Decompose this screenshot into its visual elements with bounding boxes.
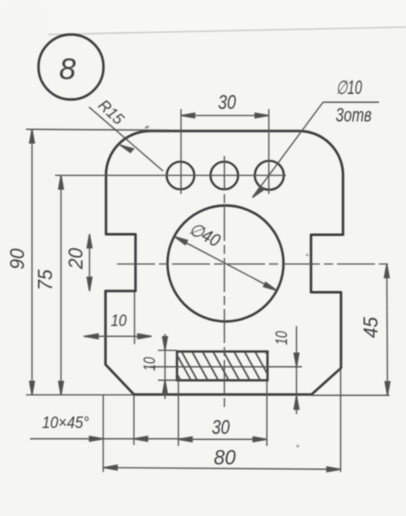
svg-text:3отв: 3отв	[336, 105, 372, 126]
dim 45	[384, 264, 390, 395]
svg-text:45: 45	[361, 316, 383, 338]
dim d40 diameter line	[174, 237, 277, 291]
part outline	[106, 131, 344, 395]
dim 10 notch	[84, 334, 152, 339]
ext for notch 10 dim	[134, 292, 136, 344]
ext left bottom (10x45 + 80)	[102, 395, 104, 472]
slot top/bottom ext left (10 dim)	[158, 349, 177, 351]
top edge extension left (90 dim)	[26, 128, 170, 131]
svg-text:10: 10	[272, 331, 291, 345]
main vertical centerline	[223, 156, 225, 409]
thin lines: extensions and centerlines	[26, 109, 390, 472]
dim 30 bottom	[178, 437, 266, 442]
svg-text:80: 80	[214, 447, 236, 470]
slot hatched	[177, 352, 268, 381]
hole 2	[211, 162, 239, 190]
svg-text:10×45°: 10×45°	[42, 413, 89, 432]
leader R15	[89, 107, 163, 171]
svg-text:8: 8	[59, 53, 76, 86]
big circle d40	[168, 206, 284, 322]
dim 80	[104, 465, 341, 472]
dim 10x45	[30, 436, 183, 441]
right ext (80) through chamfer	[340, 368, 342, 472]
svg-text:∅10: ∅10	[336, 78, 362, 99]
ext right for 10x45	[133, 395, 135, 445]
scan specks	[145, 125, 150, 129]
svg-text:30: 30	[218, 92, 236, 114]
slot right ext (30)	[266, 380, 268, 446]
svg-text:10: 10	[111, 311, 127, 330]
dim 10 slot left	[163, 334, 168, 399]
svg-text:30: 30	[212, 417, 230, 439]
holes axis + 75 ext	[55, 174, 286, 176]
balloon circle 8	[39, 35, 104, 100]
scan artifact line top	[0, 0, 406, 35]
hole 3	[255, 161, 284, 190]
dim 30 top	[181, 113, 269, 118]
svg-text:90: 90	[7, 249, 29, 270]
dim 10 slot right	[294, 326, 299, 414]
dimension lines	[30, 102, 390, 472]
svg-text:20: 20	[66, 248, 88, 270]
big circle horizontal centerline + 45 ext	[117, 263, 390, 265]
hole 1	[167, 162, 195, 190]
dim 20	[87, 234, 92, 291]
slot axis + right 10 ext	[150, 366, 302, 368]
svg-text:10: 10	[140, 357, 159, 371]
hole3 vertical ext (30 dim)	[268, 109, 270, 194]
hole1 vertical ext (30 dim)	[180, 109, 182, 194]
leader d10	[253, 102, 380, 197]
dim 90	[30, 129, 35, 395]
svg-text:75: 75	[35, 269, 57, 291]
dim 75	[59, 175, 64, 395]
slot left ext (30)	[177, 380, 179, 446]
bottom edge extensions	[26, 394, 134, 396]
